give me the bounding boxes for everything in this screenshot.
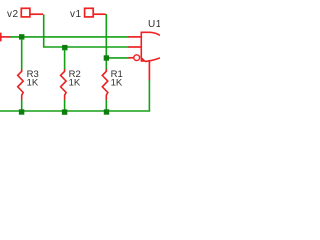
junction bottom of R1 xyxy=(104,109,109,114)
pin of V2 xyxy=(30,13,43,15)
U1 pin 3 stub xyxy=(128,57,133,59)
bottom net wire xyxy=(0,110,150,112)
gate U1 body xyxy=(141,32,161,62)
input stub end-bar at left edge xyxy=(0,33,2,42)
wire from V1 down to node R1-top xyxy=(105,14,107,58)
wire net A (to U1 pin 1) xyxy=(10,36,128,38)
wire from U1 bottom pin down xyxy=(148,80,150,111)
junction node C (V1 / R1 top) xyxy=(104,55,109,60)
junction node B (R2 top) xyxy=(62,45,67,50)
U1 inversion bubble xyxy=(134,55,140,61)
wire from V2 down to net B xyxy=(43,14,45,47)
pin of V1 xyxy=(93,13,105,15)
resistor R2 xyxy=(61,49,67,110)
svg-text:v2: v2 xyxy=(7,9,19,20)
wire net B (to U1 pin 2) xyxy=(43,46,129,48)
svg-text:1K: 1K xyxy=(111,78,123,89)
resistor R3 xyxy=(18,39,24,111)
junction node A (R3 top) xyxy=(19,34,24,39)
svg-text:U1: U1 xyxy=(148,19,160,30)
svg-text:1K: 1K xyxy=(27,78,39,89)
resistor R1 xyxy=(102,60,108,110)
U1 bottom pin (output to net) xyxy=(148,60,150,81)
U1 pin 1 stub xyxy=(128,36,141,38)
U1 pin 2 stub xyxy=(128,46,141,48)
junction bottom of R2 xyxy=(62,109,67,114)
svg-text:v1: v1 xyxy=(70,9,82,20)
input stub pin at left edge xyxy=(0,36,11,38)
voltage source V1 xyxy=(85,8,94,17)
wire node C to U1 pin 3 xyxy=(106,57,128,59)
voltage source V2 xyxy=(21,8,30,17)
svg-text:1K: 1K xyxy=(69,78,81,89)
junction bottom of R3 xyxy=(19,109,24,114)
